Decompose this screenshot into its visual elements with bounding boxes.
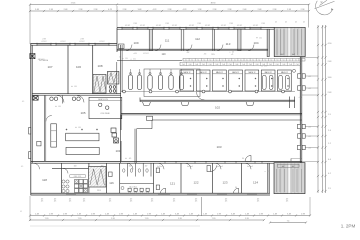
annex top-right hatched [274,27,305,56]
svg-text:2.98: 2.98 [133,23,136,25]
stairs upper-left flight [93,75,106,94]
svg-text:Cx: Cx [216,59,218,61]
svg-text:4/5: 4/5 [257,201,259,203]
svg-text:4.23: 4.23 [183,9,187,11]
svg-text:CxB: CxB [202,64,205,66]
svg-text:452 451: 452 451 [143,53,149,55]
svg-text:3.48: 3.48 [175,213,179,215]
wall left wing south y94 [32,93,121,95]
cabinet room105 [51,124,57,147]
door arcs top rooms [126,45,132,51]
svg-text:103: 103 [216,145,221,149]
svg-text:2.98: 2.98 [119,213,123,215]
svg-text:118: 118 [42,178,47,182]
outer wall bottom [31,192,271,194]
windows top-main wall [122,27,133,29]
svg-text:106: 106 [76,65,81,69]
outer wall top-main [117,27,274,29]
svg-text:4/2 4/2: 4/2 4/2 [205,25,210,27]
svg-text:4/2: 4/2 [303,22,305,24]
duct boxes x112 [111,128,116,133]
svg-text:453: 453 [204,54,207,56]
svg-text:4.23: 4.23 [108,9,112,11]
entry box with cross [30,54,35,59]
wall top band south y49.2 [117,48,268,50]
svg-text:2.43: 2.43 [328,92,332,94]
svg-text:1.98: 1.98 [49,9,53,11]
corridor 102 south wall [121,112,302,114]
wc divider [62,95,64,103]
svg-text:4.5: 4.5 [21,166,23,168]
wall step x117 [116,28,118,53]
annex bottom-right divider [288,164,290,194]
svg-text:4.5: 4.5 [264,66,266,68]
svg-text:121: 121 [170,182,175,186]
wc ovals group1 [50,97,53,100]
svg-text:116: 116 [109,181,114,185]
bottom dim extension right [309,197,311,216]
svg-text:117: 117 [145,165,148,167]
equipment schedule strip upper [183,58,305,61]
svg-text:CxB: CxB [256,64,259,66]
svg-text:+4.5: +4.5 [308,88,311,90]
stairs bottom zigzag [90,169,104,185]
svg-text:3.48: 3.48 [231,213,235,215]
svg-text:2.48: 2.48 [243,9,247,11]
stairs zigzag [94,76,106,92]
svg-text:4x2: 4x2 [281,54,284,56]
wall 113 right x239 [238,29,241,50]
kitchen fixtures [75,180,79,184]
wall 107-106 [67,45,69,94]
svg-text:0.5: 0.5 [129,158,131,160]
column circle top right [293,69,296,72]
svg-text:108: 108 [97,64,102,68]
svg-text:2.4: 2.4 [328,130,331,132]
svg-text:3.60: 3.60 [328,77,332,79]
svg-text:+4.5: +4.5 [308,76,311,78]
svg-text:102: 102 [215,106,220,110]
bottom dim extension left [29,196,31,221]
right wall pilasters [298,74,301,78]
annex top-right dark streaks [276,29,278,55]
svg-text:2.98: 2.98 [91,213,95,215]
svg-text:2.98: 2.98 [213,9,217,11]
shaft wall x116.8 [116,62,118,94]
svg-text:4/5: 4/5 [173,201,175,203]
svg-text:4/2 4/2: 4/2 4/2 [140,25,145,27]
corner step bottom-right [290,159,292,162]
svg-text:4/2 4/2: 4/2 4/2 [60,41,65,43]
svg-text:4.5: 4.5 [22,101,24,103]
radiator left wall a [29,128,31,135]
bench dots [66,129,67,130]
svg-text:Cx: Cx [191,59,193,61]
svg-text:4/2 4/2: 4/2 4/2 [99,41,104,43]
svg-text:4/5: 4/5 [225,201,227,203]
svg-text:4x2 4x2: 4x2 4x2 [217,166,223,168]
svg-text:CxB: CxB [262,64,265,66]
svg-text:113: 113 [74,165,77,167]
svg-text:2.98: 2.98 [261,23,264,25]
stairs bottom flight [89,167,107,188]
svg-text:111: 111 [165,38,170,42]
wc ovals group2 [72,97,75,100]
svg-text:4/2: 4/2 [285,22,287,24]
tank group outline [144,69,200,97]
svg-text:105: 105 [80,111,85,115]
door arc equipment [197,92,205,100]
svg-text:CxB: CxB [242,64,245,66]
door symbol B2 [161,188,166,193]
column circles [123,90,126,93]
svg-text:CxB: CxB [195,64,198,66]
wc under stairs [109,86,112,89]
svg-text:2.98: 2.98 [301,213,305,215]
svg-text:4x2 4x2: 4x2 4x2 [187,166,193,168]
svg-text:4/5: 4/5 [151,201,153,203]
annex bottom-right streaks [276,169,278,192]
svg-text:4.5: 4.5 [232,52,234,54]
door arc 105 top [46,116,52,122]
wall x121 lower2 [120,141,122,161]
svg-text:4/2: 4/2 [295,22,297,24]
svg-text:2.98: 2.98 [259,213,263,215]
svg-text:CxB: CxB [189,64,192,66]
svg-text:2.98: 2.98 [273,9,277,11]
dimension line top overall [30,4,309,6]
svg-text:2.48: 2.48 [105,213,109,215]
svg-text:0.5: 0.5 [125,58,127,60]
svg-text:2.98: 2.98 [49,213,53,215]
windows top-left wing [37,43,51,45]
svg-text:2.98: 2.98 [168,9,172,11]
wall 104 right x268 [267,29,269,56]
svg-text:2.98: 2.98 [79,9,83,11]
svg-text:4x2: 4x2 [292,166,295,168]
svg-text:4/5: 4/5 [83,201,85,203]
dimension line bottom right short [270,222,306,224]
svg-text:2.98: 2.98 [42,39,45,41]
hall north edge stepped [137,128,152,130]
svg-text:452: 452 [187,52,190,54]
svg-text:122: 122 [193,181,198,185]
svg-text:2.48: 2.48 [189,213,193,215]
corridor 102 right end bars [289,97,291,109]
svg-text:4/2 4/2: 4/2 4/2 [237,25,242,27]
svg-text:1. 2PM: 1. 2PM [341,224,356,229]
dimension line bottom faint [30,225,200,227]
svg-text:2.5: 2.5 [328,188,331,190]
svg-text:112: 112 [195,37,200,41]
door arcs bottom rooms [127,163,133,169]
svg-text:2.98: 2.98 [94,9,98,11]
dimension line bottom upper [30,215,310,217]
stairs upper-right flight [107,72,119,85]
corridor 102 north wall left corner [139,98,141,102]
svg-text:113: 113 [226,42,231,46]
dimension line right mid [321,25,323,193]
svg-text:1.48: 1.48 [161,213,165,215]
svg-text:4/2 4/2: 4/2 4/2 [189,25,194,27]
svg-text:2.98: 2.98 [217,213,221,215]
wall 105 left x45 [43,95,45,161]
svg-text:4/2 4/2: 4/2 4/2 [79,41,84,43]
dim extension right [307,5,309,28]
svg-text:4.5: 4.5 [133,59,135,61]
svg-text:1.98: 1.98 [198,9,202,11]
door fixture hall-south [207,166,211,172]
svg-text:Cx: Cx [203,59,205,61]
svg-text:Cx: Cx [246,59,248,61]
svg-text:4/2: 4/2 [275,22,277,24]
svg-text:Cx: Cx [252,59,254,61]
svg-text:4/2 4/2: 4/2 4/2 [221,25,226,27]
svg-text:Cx: Cx [264,59,266,61]
svg-text:CxB: CxB [289,64,292,66]
svg-text:5.95: 5.95 [111,218,115,220]
svg-text:104: 104 [253,41,258,45]
hall-south wall ticks [164,161,166,164]
svg-text:CxB: CxB [229,64,232,66]
svg-text:3.48: 3.48 [287,213,291,215]
wall 105-101 x121 lower [120,115,122,130]
dimension line bottom lower [30,219,264,221]
bench table 2 [66,147,99,154]
corridor 102 door notches [143,102,151,106]
tank stems [130,69,132,75]
svg-text:Cx: Cx [240,59,242,61]
svg-text:115: 115 [129,165,132,167]
kitchen secondary wall [52,167,89,169]
door arc room118 [34,163,40,169]
radiator left wall b [29,152,31,159]
tanks left group [128,75,132,90]
svg-text:CxB: CxB [222,64,225,66]
svg-text:Cx: Cx [222,59,224,61]
svg-text:5.95: 5.95 [245,218,249,220]
svg-text:4.5: 4.5 [259,38,261,40]
svg-text:Cx: Cx [271,59,273,61]
wall 112 right x214 [212,29,214,50]
svg-text:Cx: Cx [228,59,230,61]
svg-text:1.48: 1.48 [133,213,137,215]
svg-text:2.98: 2.98 [229,23,232,25]
svg-text:CxB: CxB [296,64,299,66]
small box hall top [147,116,153,120]
svg-text:7.20: 7.20 [145,218,149,220]
svg-text:Cx: Cx [185,59,187,61]
door symbol B1 [234,188,239,193]
cabinet room109 [119,44,125,49]
svg-text:2.98: 2.98 [301,9,305,11]
svg-text:0.5: 0.5 [58,106,60,108]
bottom dim drop line [201,197,203,216]
wash box header [89,100,122,102]
svg-text:2.43: 2.43 [328,61,332,63]
svg-text:2.98: 2.98 [123,9,127,11]
svg-text:Cx: Cx [277,59,279,61]
svg-text:101: 101 [115,149,120,153]
svg-text:6.4: 6.4 [328,159,331,161]
svg-text:4/2 4/2: 4/2 4/2 [156,25,161,27]
small table room105 [37,141,41,146]
svg-text:CxB: CxB [276,64,279,66]
svg-text:7.4: 7.4 [287,220,290,222]
svg-text:CxB: CxB [182,64,185,66]
svg-text:OBKL STOL: OBKL STOL [74,176,82,178]
svg-text:3.48: 3.48 [138,9,142,11]
svg-text:45: 45 [20,211,22,213]
fixture box w/ cross [33,96,38,100]
svg-text:4.2: 4.2 [328,173,331,175]
svg-text:38.90: 38.90 [211,2,216,4]
dimension line right inner [325,25,327,193]
svg-text:CxB: CxB [269,64,272,66]
svg-text:107: 107 [47,65,52,69]
bench table 1 [66,133,99,141]
svg-text:1.48: 1.48 [245,213,249,215]
svg-text:7.20: 7.20 [212,218,216,220]
svg-text:3.48: 3.48 [35,9,39,11]
svg-text:2.48: 2.48 [35,213,39,215]
svg-text:Cx: Cx [295,59,297,61]
wall 108 right x121 [120,45,122,163]
wash box circles [99,103,102,106]
tanks right group [262,75,266,89]
svg-text:4/5: 4/5 [130,201,132,203]
wall hall-south y161.5 [31,160,302,162]
svg-text:+4.5: +4.5 [299,97,302,99]
svg-text:4.23: 4.23 [153,9,157,11]
annex bottom-right hatched [274,163,305,194]
kitchen door arc [63,168,68,173]
dim extension left [29,5,31,45]
equipment schedule strip lower [180,62,301,65]
svg-text:1.48: 1.48 [77,213,81,215]
svg-text:109: 109 [133,41,138,45]
windows bottom wall [66,193,76,195]
room116 fixture [109,172,113,177]
svg-text:2.98: 2.98 [228,9,232,11]
north arrow [315,0,335,15]
svg-text:4.5: 4.5 [267,171,269,173]
svg-text:4/5: 4/5 [54,201,56,203]
dim extension mid [116,6,118,27]
svg-text:1.5: 1.5 [328,114,331,116]
svg-text:Cx: Cx [210,59,212,61]
svg-text:CxB: CxB [215,64,218,66]
svg-text:CxB: CxB [282,64,285,66]
svg-text:CxB: CxB [209,64,212,66]
svg-text:5.95: 5.95 [178,218,182,220]
svg-text:Cx: Cx [234,59,236,61]
svg-text:4x2: 4x2 [292,54,295,56]
svg-text:1.98: 1.98 [287,9,291,11]
svg-text:110: 110 [162,53,167,56]
wall 101-103 x135.5 [134,129,136,164]
svg-text:CxB: CxB [235,64,238,66]
svg-text:4x2 4x2: 4x2 4x2 [247,166,253,168]
corridor 102 north wall [140,99,295,101]
svg-text:4x2 4x2: 4x2 4x2 [157,166,163,168]
svg-text:2.98: 2.98 [63,213,67,215]
svg-text:2.98: 2.98 [147,213,151,215]
svg-text:0.5: 0.5 [78,127,80,129]
column line y91.5 [121,91,295,93]
door arc 106 [77,95,84,102]
svg-text:Cx: Cx [197,59,199,61]
svg-text:4/2 4/2: 4/2 4/2 [172,25,177,27]
svg-text:Cx: Cx [283,59,285,61]
annex top-right divider [288,28,290,56]
outer wall top-left [31,43,118,45]
svg-text:+4.5: +4.5 [308,136,311,138]
annex bottom-right header [278,164,300,167]
svg-text:124: 124 [253,181,258,185]
door symbol hall [245,155,251,161]
svg-text:1.48: 1.48 [273,213,277,215]
door arc 107 [57,95,64,102]
corridor 110 south line [117,60,182,62]
svg-text:4/2 4/2: 4/2 4/2 [253,25,258,27]
svg-text:4/2 4/2: 4/2 4/2 [41,41,46,43]
outer wall right [299,57,301,164]
svg-text:4/5: 4/5 [41,201,43,203]
bottom band walls [61,163,63,193]
svg-text:17.45: 17.45 [71,2,76,4]
svg-text:123: 123 [222,181,227,185]
svg-text:4x2: 4x2 [282,166,285,168]
wall 106-108 [92,45,94,94]
wall 109 right x149-153 [149,29,152,50]
svg-text:CxB: CxB [249,64,252,66]
svg-text:4/5: 4/5 [286,201,288,203]
svg-text:2.48: 2.48 [64,9,68,11]
svg-text:7.20: 7.20 [45,218,49,220]
svg-text:+45: +45 [231,54,234,56]
svg-text:2.98: 2.98 [197,23,200,25]
svg-text:2.98: 2.98 [80,39,83,41]
svg-text:Cx: Cx [289,59,291,61]
svg-text:4/2 4/2: 4/2 4/2 [125,25,130,27]
svg-text:4/5: 4/5 [109,201,111,203]
toilet stalls [120,183,154,185]
wall 111 right x182 [180,29,182,50]
wall 124 right x268 [268,163,270,193]
machine row boxes [180,70,194,91]
svg-text:+4.5: +4.5 [308,127,311,129]
svg-text:2.48: 2.48 [258,9,262,11]
sub-room wash box [89,97,122,118]
svg-text:0.5: 0.5 [74,86,76,88]
svg-text:Cx: Cx [258,59,260,61]
svg-text:4/5: 4/5 [195,201,197,203]
svg-text:1.48: 1.48 [203,213,207,215]
dimension line top segments [30,10,309,12]
outer wall left [30,44,32,196]
dimension line right outer [317,25,319,193]
kitchen header band [70,175,86,178]
svg-text:1.2: 1.2 [328,143,331,145]
right dim connectors [302,57,318,59]
svg-text:4.50: 4.50 [328,43,332,45]
svg-text:4/5: 4/5 [69,201,71,203]
svg-text:+4.5: +4.5 [308,148,311,150]
svg-text:+4.5: +4.5 [133,53,136,55]
svg-text:7.20: 7.20 [78,218,82,220]
room121 fixtures [156,168,159,173]
